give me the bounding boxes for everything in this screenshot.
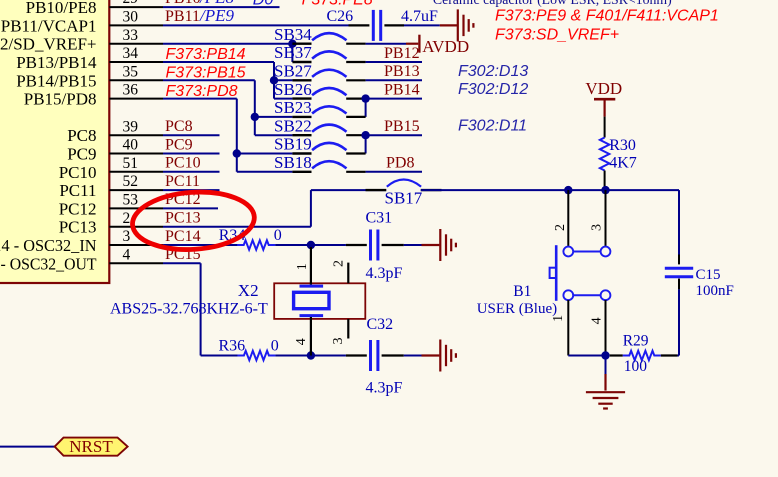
- svg-text:4: 4: [123, 246, 131, 263]
- wire PB14 down to SB23: [365, 99, 367, 117]
- crystal X2 pin 1: [310, 247, 312, 285]
- svg-text:PB13: PB13: [384, 63, 420, 80]
- wire R29 to C15: [661, 354, 678, 356]
- capacitor C26: [372, 10, 375, 41]
- junction at SB34 left: [288, 40, 296, 48]
- wire C15 branch: [678, 190, 680, 254]
- svg-text:4.3pF: 4.3pF: [366, 265, 403, 282]
- svg-text:30: 30: [123, 9, 139, 26]
- svg-text:PB15/PD8: PB15/PD8: [24, 90, 97, 109]
- svg-text:NRST: NRST: [69, 437, 113, 456]
- capacitor C31: [369, 230, 372, 261]
- svg-text:SB26: SB26: [274, 80, 312, 99]
- wire net PC11: [163, 189, 220, 191]
- wire R34 to crystal node: [275, 244, 346, 246]
- wire pin36 chain to SB18: [237, 171, 293, 173]
- svg-text:PB11/VCAP1: PB11/VCAP1: [1, 16, 97, 35]
- wire PB15 down to SB19: [365, 135, 367, 153]
- svg-text:F373:PD8: F373:PD8: [166, 83, 238, 100]
- svg-text:ABS25-32.768KHZ-6-T: ABS25-32.768KHZ-6-T: [110, 301, 268, 318]
- svg-text:/PE9: /PE9: [199, 6, 234, 25]
- wire NRST: [0, 446, 55, 448]
- svg-text:VDD: VDD: [585, 79, 622, 98]
- solder bridge SB19: [292, 152, 311, 154]
- svg-text:PB12/SD_VREF+: PB12/SD_VREF+: [0, 35, 97, 54]
- wire net PB13: [366, 79, 422, 81]
- pin 53 stub: [109, 207, 163, 209]
- wire net PB10/PE8: [163, 6, 280, 8]
- svg-text:4.7uF: 4.7uF: [401, 8, 438, 25]
- solder bridge SB17: [366, 189, 387, 191]
- resistor R29: [623, 351, 661, 360]
- wire pin35 chain to SB22: [255, 134, 293, 136]
- wire chain to SB26: [274, 98, 292, 100]
- junction button left: [564, 186, 572, 194]
- svg-text:F373:PE9 & F401/F411:VCAP1: F373:PE9 & F401/F411:VCAP1: [495, 8, 719, 25]
- svg-text:0: 0: [274, 227, 282, 244]
- pin 52 stub: [109, 189, 163, 191]
- svg-text:PC9: PC9: [165, 136, 193, 153]
- svg-text:PB10: PB10: [165, 0, 201, 7]
- svg-text:52: 52: [123, 173, 139, 190]
- svg-text:F302:D12: F302:D12: [458, 81, 528, 98]
- svg-text:PB14: PB14: [384, 81, 420, 98]
- wire net PC14: [163, 244, 238, 246]
- svg-text:PC8: PC8: [67, 126, 96, 145]
- pin 4 stub: [109, 262, 163, 264]
- wire SB34 to AVDD: [366, 43, 406, 45]
- wire net PC9: [163, 153, 220, 155]
- svg-text:R29: R29: [623, 332, 649, 349]
- svg-text:PC14 - OSC32_IN: PC14 - OSC32_IN: [0, 236, 97, 255]
- wire R36 to crystal bottom node: [275, 355, 346, 357]
- highlight ellipse around PC13: [131, 188, 257, 253]
- svg-text:2: 2: [332, 260, 347, 267]
- pin 40 stub: [109, 153, 163, 155]
- pin 34 stub: [109, 61, 163, 63]
- junction PB14 right: [361, 94, 369, 102]
- wire net PC8: [163, 134, 220, 136]
- wire button bottom: [568, 355, 605, 357]
- solder bridge SB18: [292, 171, 311, 173]
- pin 35 stub: [109, 79, 163, 81]
- wire to SB27: [274, 79, 292, 81]
- svg-text:F302:D11: F302:D11: [458, 118, 527, 135]
- button B1 contacts bottom: [563, 290, 573, 300]
- svg-text:SB27: SB27: [274, 62, 312, 81]
- button B1 actuator: [555, 245, 558, 301]
- capacitor C15: [665, 267, 693, 270]
- svg-text:0: 0: [271, 338, 279, 355]
- ground (rotated) for C32: [439, 340, 441, 372]
- svg-text:AVDD: AVDD: [422, 37, 469, 56]
- svg-text:C31: C31: [366, 210, 393, 227]
- svg-text:3: 3: [590, 224, 605, 231]
- wire down to SB37: [291, 44, 293, 62]
- ground: [586, 391, 625, 393]
- capacitor C32: [369, 340, 372, 371]
- wire SB17 to button node: [421, 189, 679, 191]
- button B1 contacts top: [563, 247, 573, 257]
- pin 51 stub: [109, 171, 163, 173]
- svg-text:C26: C26: [327, 8, 354, 25]
- svg-text:2: 2: [553, 224, 568, 231]
- wire net PC13: [163, 226, 311, 228]
- svg-text:40: 40: [123, 137, 139, 154]
- solder bridge SB22: [292, 134, 311, 136]
- svg-text:4.3pF: 4.3pF: [366, 379, 403, 396]
- wire PC13 riser to SB17: [310, 190, 312, 227]
- MCU sheet-symbol block U5 (yellow): [0, 0, 109, 283]
- svg-text:PC9: PC9: [67, 145, 96, 164]
- button B1 pin 1: [567, 300, 569, 355]
- junction pin36 chain at SB19: [233, 149, 241, 157]
- wire PC15 down to R36: [200, 263, 202, 355]
- wire pin34 down to SB27: [163, 61, 274, 63]
- solder bridge SB26: [292, 97, 311, 99]
- svg-text:PC15 - OSC32_OUT: PC15 - OSC32_OUT: [0, 254, 97, 273]
- svg-text:51: 51: [123, 155, 139, 172]
- junction crystal bottom: [307, 351, 315, 359]
- svg-text:PB10/PE8: PB10/PE8: [26, 0, 97, 17]
- svg-text:SB34: SB34: [274, 25, 312, 44]
- svg-text:PC11: PC11: [59, 181, 96, 200]
- button B1 pin 3: [605, 190, 607, 247]
- solder bridge SB34: [292, 43, 311, 45]
- wire C32 to ground: [382, 354, 404, 356]
- wire net PC15: [163, 262, 201, 264]
- svg-text:PC13: PC13: [59, 218, 97, 237]
- resistor R34: [237, 240, 275, 249]
- svg-text:SB23: SB23: [274, 98, 312, 117]
- resistor R36: [237, 351, 275, 360]
- crystal X2 pin 2 stub: [347, 263, 349, 284]
- wire net PB14: [366, 98, 422, 100]
- svg-text:4: 4: [590, 317, 605, 324]
- ground (rotated) for C31: [439, 229, 441, 261]
- svg-text:100nF: 100nF: [696, 283, 734, 299]
- svg-text:36: 36: [123, 82, 139, 99]
- svg-text:SB17: SB17: [385, 189, 423, 208]
- pin 29 stub: [109, 6, 163, 8]
- svg-text:F373:PB15: F373:PB15: [166, 65, 246, 82]
- solder bridge SB23: [292, 116, 311, 118]
- svg-text:F373:PB14: F373:PB14: [166, 46, 246, 63]
- wire pin33 to SB34/SB37: [163, 43, 292, 45]
- svg-text:C15: C15: [696, 267, 721, 283]
- svg-text:F302:D13: F302:D13: [458, 63, 528, 80]
- svg-text:PC12: PC12: [59, 199, 97, 218]
- svg-text:R30: R30: [609, 137, 636, 154]
- svg-text:PB12: PB12: [384, 45, 420, 62]
- svg-text:100: 100: [624, 358, 648, 375]
- wire net PB15: [366, 134, 422, 136]
- svg-text:PC10: PC10: [165, 155, 201, 172]
- wire pin36 down to SB19/SB18: [163, 98, 237, 100]
- svg-text:PC14: PC14: [165, 228, 201, 245]
- wire net PD8: [366, 171, 422, 173]
- pin 3 stub: [109, 244, 163, 246]
- svg-text:F373:PE8: F373:PE8: [302, 0, 373, 8]
- svg-text:SB18: SB18: [274, 153, 312, 172]
- junction pin35 chain at SB23: [251, 113, 259, 121]
- svg-text:1: 1: [295, 263, 310, 270]
- svg-text:X2: X2: [238, 281, 259, 300]
- svg-text:C32: C32: [367, 316, 394, 333]
- svg-text:4K7: 4K7: [609, 155, 637, 172]
- svg-text:34: 34: [123, 45, 139, 62]
- pin 2 stub: [109, 226, 163, 228]
- junction bottom gnd: [601, 351, 609, 359]
- svg-text:USER (Blue): USER (Blue): [477, 301, 557, 317]
- svg-text:D0: D0: [253, 0, 274, 8]
- svg-text:PC8: PC8: [165, 118, 193, 135]
- wire to SB23: [255, 116, 293, 118]
- svg-text:PC11: PC11: [165, 173, 200, 190]
- wire net PC10: [163, 171, 220, 173]
- svg-text:3: 3: [331, 338, 346, 345]
- svg-text:39: 39: [123, 118, 139, 135]
- wire to SB19: [237, 153, 293, 155]
- crystal X2 pin 4: [310, 317, 312, 356]
- crystal X2 body box: [274, 283, 365, 319]
- wire C26 to ground: [384, 24, 404, 26]
- crystal symbol: [300, 285, 324, 288]
- pin 39 stub: [109, 134, 163, 136]
- solder bridge SB37: [292, 61, 311, 63]
- wire C31 to ground: [382, 244, 404, 246]
- svg-text:PC13: PC13: [165, 210, 201, 227]
- crystal X2 pin 3 stub: [347, 319, 349, 339]
- junction PB15 right: [361, 131, 369, 139]
- svg-text:33: 33: [123, 27, 139, 44]
- svg-text:R36: R36: [219, 338, 246, 355]
- power port AVDD: [418, 35, 420, 53]
- pin 30 stub: [109, 24, 163, 26]
- power port NRST flag: [55, 438, 128, 456]
- svg-text:PD8: PD8: [386, 155, 414, 172]
- svg-text:SB37: SB37: [274, 43, 312, 62]
- svg-text:3: 3: [123, 228, 131, 245]
- junction crystal top: [307, 241, 315, 249]
- wire pin35 down to SB23/SB22: [163, 79, 255, 81]
- svg-text:53: 53: [123, 192, 139, 209]
- wire to ground: [605, 356, 607, 375]
- svg-text:4: 4: [294, 338, 309, 345]
- svg-text:F373:SD_VREF+: F373:SD_VREF+: [495, 27, 619, 44]
- junction button right / R30: [601, 186, 609, 194]
- button B1 pin 2: [567, 190, 569, 247]
- svg-text:B1: B1: [513, 283, 531, 300]
- svg-text:PC10: PC10: [59, 163, 97, 182]
- solder bridge SB27: [292, 79, 311, 81]
- wire to R29: [610, 354, 623, 356]
- svg-text:SB22: SB22: [274, 116, 312, 135]
- svg-text:PB14/PB15: PB14/PB15: [16, 71, 96, 90]
- pin 33 stub: [109, 43, 163, 45]
- svg-text:PB11: PB11: [165, 8, 200, 25]
- resistor R30: [604, 117, 606, 138]
- wire net PB12: [366, 61, 422, 63]
- svg-text:PB13/PB14: PB13/PB14: [16, 53, 97, 72]
- junction pin34 chain at SB27: [270, 76, 278, 84]
- pin 36 stub: [109, 98, 163, 100]
- svg-text:2: 2: [123, 210, 131, 227]
- wire net PC12: [163, 207, 218, 209]
- svg-text:SB19: SB19: [274, 135, 312, 154]
- ground (rotated) for C26: [457, 9, 459, 41]
- svg-text:35: 35: [123, 63, 139, 80]
- wire net PB11/PE9: [163, 24, 349, 26]
- button B1 pin 4: [605, 300, 607, 355]
- svg-text:PB15: PB15: [384, 118, 420, 135]
